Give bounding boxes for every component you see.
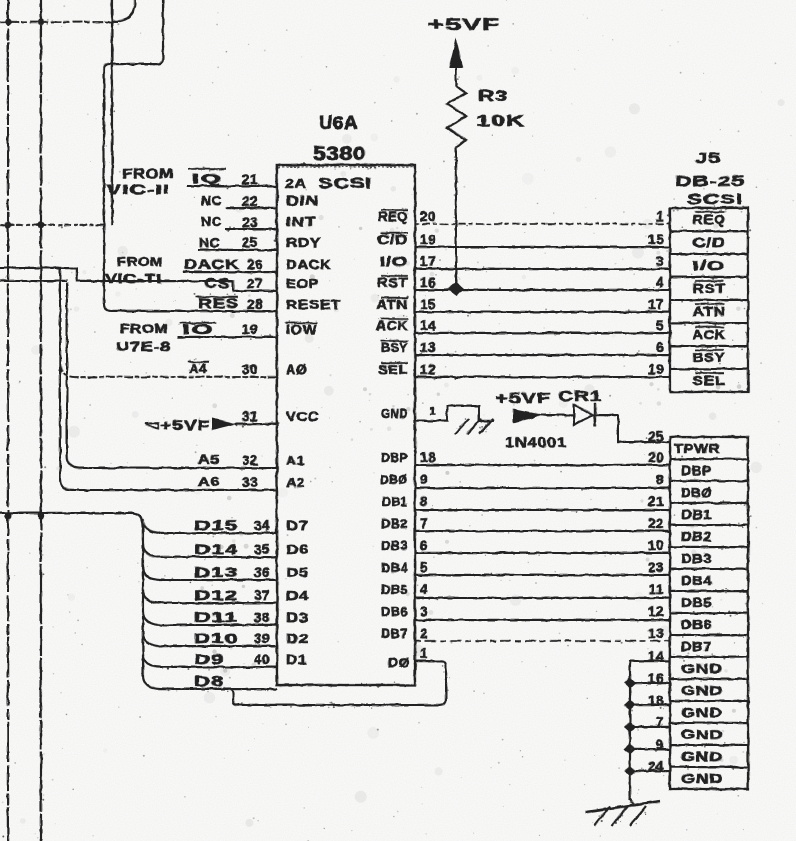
svg-text:25: 25	[242, 235, 258, 250]
svg-text:U6A: U6A	[319, 113, 358, 133]
svg-text:31: 31	[242, 409, 258, 424]
svg-text:32: 32	[242, 453, 258, 468]
svg-text:DØ: DØ	[388, 655, 410, 670]
svg-text:2A: 2A	[285, 176, 307, 191]
svg-text:6: 6	[656, 340, 664, 355]
svg-text:21: 21	[242, 172, 258, 187]
svg-text:14: 14	[420, 318, 436, 333]
svg-text:39: 39	[254, 631, 270, 646]
svg-text:I/O: I/O	[380, 254, 408, 269]
svg-text:REQ: REQ	[378, 209, 408, 224]
svg-text:12: 12	[648, 604, 664, 619]
svg-text:RES: RES	[198, 296, 239, 311]
svg-text:A2: A2	[286, 475, 305, 490]
svg-text:IQ: IQ	[192, 171, 222, 186]
svg-text:10K: 10K	[476, 113, 525, 130]
svg-text:SEL: SEL	[378, 362, 408, 377]
svg-text:VIC-II: VIC-II	[106, 182, 170, 197]
svg-text:DB3: DB3	[381, 538, 408, 553]
svg-text:DACK: DACK	[184, 257, 239, 272]
svg-text:CS: CS	[204, 276, 230, 291]
svg-text:I/O: I/O	[693, 258, 726, 273]
svg-text:7: 7	[420, 516, 428, 531]
svg-text:38: 38	[254, 610, 270, 625]
svg-text:1N4001: 1N4001	[505, 434, 567, 450]
svg-text:37: 37	[254, 588, 270, 603]
svg-text:IOW: IOW	[286, 322, 317, 337]
svg-text:D1: D1	[286, 652, 307, 667]
svg-text:2: 2	[420, 626, 428, 641]
svg-text:DBØ: DBØ	[380, 472, 408, 487]
svg-text:34: 34	[254, 518, 270, 533]
svg-text:+5VF: +5VF	[495, 390, 551, 407]
svg-text:D15: D15	[194, 518, 238, 533]
svg-text:A5: A5	[198, 452, 220, 467]
svg-text:DBP: DBP	[681, 464, 712, 478]
svg-text:D2: D2	[286, 631, 309, 646]
svg-text:VCC: VCC	[286, 409, 319, 424]
svg-text:23: 23	[648, 560, 664, 575]
svg-text:A4: A4	[189, 361, 207, 376]
svg-text:D7: D7	[286, 518, 309, 533]
svg-text:FROM: FROM	[117, 254, 163, 269]
svg-text:GND: GND	[681, 772, 723, 786]
svg-text:28: 28	[247, 297, 263, 312]
svg-text:9: 9	[420, 472, 428, 487]
svg-text:SEL: SEL	[693, 373, 726, 388]
svg-text:21: 21	[648, 494, 664, 509]
svg-text:DB4: DB4	[681, 574, 712, 588]
svg-text:D9: D9	[194, 652, 224, 667]
svg-text:DB5: DB5	[381, 582, 408, 597]
svg-text:18: 18	[420, 450, 436, 465]
svg-text:17: 17	[648, 297, 664, 312]
svg-text:36: 36	[254, 565, 270, 580]
svg-text:19: 19	[420, 232, 436, 247]
svg-text:GND: GND	[681, 706, 723, 720]
svg-text:8: 8	[420, 494, 428, 509]
svg-text:SCSI: SCSI	[318, 176, 372, 192]
svg-text:19: 19	[648, 362, 664, 377]
svg-text:4: 4	[420, 582, 428, 597]
svg-text:27: 27	[247, 276, 263, 291]
svg-text:8: 8	[656, 472, 664, 487]
svg-text:+5VF: +5VF	[428, 15, 500, 34]
svg-text:5: 5	[420, 560, 428, 575]
svg-text:DB2: DB2	[381, 516, 408, 531]
svg-text:GND: GND	[681, 684, 723, 698]
svg-text:DB3: DB3	[681, 552, 712, 566]
svg-text:4: 4	[656, 275, 664, 290]
svg-text:+5VF: +5VF	[160, 417, 210, 433]
svg-text:NC: NC	[201, 214, 222, 229]
svg-text:C/D: C/D	[377, 232, 408, 247]
svg-text:DB6: DB6	[681, 618, 712, 632]
svg-text:RST: RST	[377, 275, 408, 290]
svg-text:30: 30	[242, 362, 258, 377]
svg-text:12: 12	[420, 362, 436, 377]
svg-text:FROM: FROM	[122, 166, 174, 181]
svg-text:C/D: C/D	[693, 235, 726, 250]
svg-text:BSY: BSY	[381, 340, 408, 355]
svg-text:40: 40	[254, 652, 270, 667]
svg-text:D11: D11	[194, 610, 238, 625]
svg-text:13: 13	[420, 340, 436, 355]
svg-text:16: 16	[420, 275, 436, 290]
svg-text:RDY: RDY	[286, 235, 321, 250]
svg-text:SCSI: SCSI	[687, 191, 743, 208]
svg-text:DB7: DB7	[381, 626, 408, 641]
svg-text:15: 15	[648, 232, 664, 247]
svg-text:DB7: DB7	[681, 640, 712, 654]
svg-text:35: 35	[254, 542, 270, 557]
svg-text:D5: D5	[286, 565, 309, 580]
svg-text:22: 22	[648, 516, 664, 531]
svg-text:DB4: DB4	[381, 560, 408, 575]
svg-text:D6: D6	[286, 542, 309, 557]
svg-text:D3: D3	[286, 610, 309, 625]
svg-text:GND: GND	[381, 406, 408, 421]
svg-text:NC: NC	[201, 193, 222, 208]
svg-text:17: 17	[420, 254, 436, 269]
svg-text:TPWR: TPWR	[674, 442, 720, 456]
svg-text:D12: D12	[194, 588, 238, 603]
svg-text:DB1: DB1	[382, 494, 408, 509]
svg-text:DACK: DACK	[286, 257, 331, 272]
svg-text:DB-25: DB-25	[675, 173, 745, 190]
svg-text:19: 19	[242, 322, 258, 337]
svg-text:6: 6	[420, 538, 428, 553]
svg-text:1: 1	[656, 209, 664, 224]
svg-text:33: 33	[242, 475, 258, 490]
svg-text:D10: D10	[194, 631, 238, 646]
svg-text:D13: D13	[194, 565, 238, 580]
svg-text:5380: 5380	[313, 144, 366, 165]
svg-text:R3: R3	[478, 88, 508, 105]
svg-text:U7E-8: U7E-8	[116, 339, 171, 354]
svg-text:FROM: FROM	[120, 321, 168, 336]
svg-text:ATN: ATN	[693, 304, 726, 319]
svg-text:J5: J5	[695, 150, 721, 167]
svg-text:11: 11	[649, 582, 664, 597]
svg-text:10: 10	[648, 538, 664, 553]
svg-text:AØ: AØ	[286, 362, 307, 377]
svg-text:RST: RST	[693, 281, 726, 296]
svg-text:ACK: ACK	[693, 327, 726, 342]
svg-text:DB1: DB1	[681, 508, 712, 522]
svg-text:DIN: DIN	[286, 193, 319, 208]
svg-text:D4: D4	[286, 588, 309, 603]
svg-text:VIC-TI: VIC-TI	[105, 271, 162, 286]
svg-text:22: 22	[242, 194, 258, 209]
svg-text:1: 1	[430, 406, 436, 417]
svg-text:DBP: DBP	[381, 450, 408, 465]
svg-text:DB2: DB2	[681, 530, 712, 544]
svg-text:RESET: RESET	[286, 297, 341, 312]
svg-text:A6: A6	[198, 474, 220, 489]
svg-text:REQ: REQ	[693, 212, 726, 227]
svg-text:GND: GND	[681, 750, 723, 764]
svg-text:IO: IO	[182, 322, 214, 337]
svg-text:15: 15	[420, 297, 436, 312]
svg-text:NC: NC	[199, 235, 220, 250]
svg-text:GND: GND	[681, 728, 723, 742]
svg-text:DB6: DB6	[381, 604, 408, 619]
svg-text:D8: D8	[194, 674, 224, 689]
svg-text:5: 5	[656, 318, 664, 333]
svg-text:DB5: DB5	[681, 596, 712, 610]
svg-text:D14: D14	[194, 542, 238, 557]
svg-text:A1: A1	[286, 453, 305, 468]
svg-text:3: 3	[420, 604, 428, 619]
